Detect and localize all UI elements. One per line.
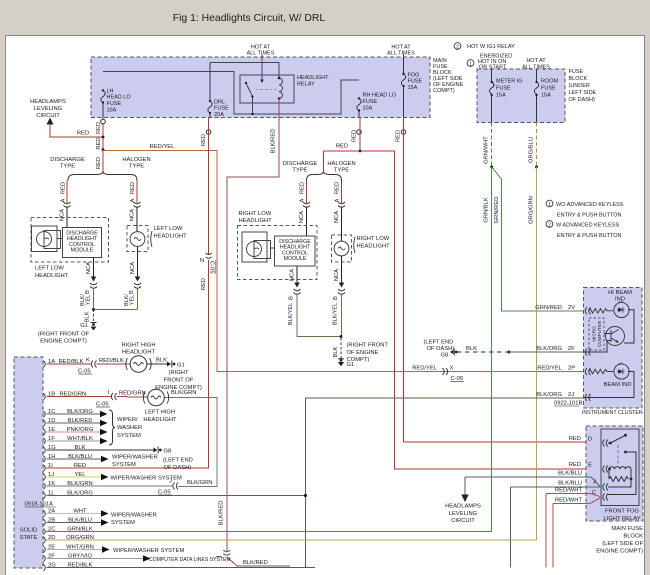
svg-text:RED: RED [336, 144, 348, 150]
svg-text:TYPE: TYPE [334, 168, 349, 174]
svg-text:RED/WHT: RED/WHT [555, 488, 583, 494]
svg-text:HEADLAMPS: HEADLAMPS [445, 504, 481, 510]
svg-text:GRN/BLK: GRN/BLK [484, 197, 490, 223]
svg-text:FUSE: FUSE [496, 86, 511, 92]
svg-text:BLK/ORG: BLK/ORG [536, 346, 562, 352]
svg-text:RED/GRN: RED/GRN [119, 391, 146, 397]
svg-text:BLK/GRN: BLK/GRN [171, 390, 196, 396]
svg-text:OF DASH): OF DASH) [164, 465, 192, 471]
svg-text:BLK/RED: BLK/RED [219, 501, 225, 526]
svg-text:RED: RED [130, 182, 136, 194]
svg-text:WASHER: WASHER [117, 425, 142, 431]
svg-text:1D: 1D [48, 418, 55, 424]
svg-text:RED: RED [77, 131, 89, 137]
svg-text:A: A [130, 198, 136, 202]
svg-text:MODULE: MODULE [71, 247, 94, 253]
svg-text:MODULE: MODULE [284, 256, 307, 262]
svg-text:DRL: DRL [214, 99, 225, 105]
svg-text:RH HEAD LO: RH HEAD LO [363, 93, 397, 99]
svg-text:C-05: C-05 [209, 261, 215, 274]
svg-text:RED: RED [96, 137, 102, 149]
svg-text:WO ADVANCED KEYLESS: WO ADVANCED KEYLESS [556, 202, 624, 208]
svg-text:GRN/BLK: GRN/BLK [67, 526, 93, 532]
svg-text:20A: 20A [214, 112, 224, 118]
svg-text:BLK/RED: BLK/RED [271, 129, 277, 154]
svg-text:BLK/BLU: BLK/BLU [558, 481, 582, 487]
svg-text:FUSE: FUSE [408, 79, 423, 85]
svg-text:C-05: C-05 [451, 376, 464, 382]
svg-text:NCA: NCA [130, 209, 136, 221]
svg-text:1C: 1C [48, 409, 55, 415]
svg-text:METER IG: METER IG [496, 79, 523, 85]
svg-text:15A: 15A [408, 85, 418, 91]
svg-text:NCA: NCA [290, 269, 296, 281]
svg-text:DISCHARGE: DISCHARGE [283, 161, 318, 167]
svg-text:RIGHT HIGH: RIGHT HIGH [121, 342, 155, 348]
svg-text:ENTRY & PUSH BUTTON: ENTRY & PUSH BUTTON [557, 233, 622, 239]
svg-text:A: A [335, 198, 341, 202]
svg-text:WHT: WHT [73, 508, 87, 514]
svg-text:BLK/RED: BLK/RED [68, 418, 93, 424]
svg-text:MICRO: MICRO [591, 326, 596, 342]
svg-text:RED: RED [300, 182, 306, 194]
svg-text:ENGINE COMPT): ENGINE COMPT) [596, 549, 643, 555]
svg-text:HEADLAMPS: HEADLAMPS [30, 99, 66, 105]
svg-text:RED/BLK: RED/BLK [68, 562, 93, 568]
svg-text:LEFT SIDE: LEFT SIDE [569, 90, 597, 96]
svg-text:B: B [129, 290, 135, 294]
svg-text:FRONT OF: FRONT OF [164, 378, 194, 384]
svg-text:WIPER/: WIPER/ [117, 417, 138, 423]
svg-text:TYPE: TYPE [60, 164, 75, 170]
svg-text:1I: 1I [48, 463, 53, 469]
svg-text:RED/BLK: RED/BLK [59, 359, 84, 365]
svg-text:BLOCK: BLOCK [569, 76, 588, 82]
svg-text:RED/WHT: RED/WHT [555, 498, 583, 504]
svg-text:B: B [85, 290, 91, 294]
svg-text:BLOCK: BLOCK [623, 534, 643, 540]
svg-text:RIGHT LOW: RIGHT LOW [357, 236, 390, 242]
svg-text:2F: 2F [568, 346, 575, 352]
svg-text:C-05: C-05 [96, 402, 109, 408]
svg-text:RED: RED [352, 130, 358, 142]
svg-text:FOG: FOG [408, 72, 420, 78]
svg-text:FUSE: FUSE [107, 101, 122, 107]
svg-text:RED/YEL: RED/YEL [537, 365, 563, 371]
svg-text:(UNDER: (UNDER [569, 83, 590, 89]
svg-text:2C: 2C [48, 526, 55, 532]
svg-text:DISCHARGE: DISCHARGE [50, 157, 85, 163]
svg-text:NCA: NCA [334, 211, 340, 223]
svg-text:ORG/GRN: ORG/GRN [529, 196, 535, 224]
svg-text:RED: RED [396, 130, 402, 142]
svg-text:COMPT): COMPT) [347, 357, 370, 363]
svg-text:HOT AT: HOT AT [526, 58, 546, 64]
svg-text:RED/BLK: RED/BLK [99, 358, 124, 364]
svg-text:ALL TIMES: ALL TIMES [522, 64, 550, 70]
svg-text:G8: G8 [441, 353, 449, 359]
svg-text:2: 2 [456, 44, 459, 50]
svg-text:BLK/ORG: BLK/ORG [67, 490, 93, 496]
svg-text:BLK: BLK [333, 346, 339, 357]
svg-text:CIRCUIT: CIRCUIT [36, 113, 60, 119]
svg-text:2P: 2P [568, 365, 575, 371]
svg-text:2F: 2F [48, 553, 55, 559]
svg-text:C-05: C-05 [158, 490, 171, 496]
svg-text:NCA: NCA [130, 262, 136, 274]
svg-text:RED/YEL: RED/YEL [150, 144, 176, 150]
svg-text:RED: RED [201, 278, 207, 290]
svg-text:LEVELING: LEVELING [34, 106, 63, 112]
svg-text:LEFT LOW: LEFT LOW [35, 266, 64, 272]
svg-text:E: E [588, 463, 592, 469]
svg-text:ROOM: ROOM [541, 79, 559, 85]
svg-text:0922-101B: 0922-101B [554, 401, 582, 407]
svg-text:STATE: STATE [20, 535, 38, 541]
svg-text:HEADLIGHT: HEADLIGHT [154, 234, 188, 240]
svg-text:HEADLIGHT: HEADLIGHT [297, 75, 329, 81]
svg-text:BLK: BLK [156, 358, 167, 364]
svg-text:J: J [169, 479, 172, 485]
svg-text:COMPUTER DATA LINES SYSTEM: COMPUTER DATA LINES SYSTEM [149, 557, 231, 563]
svg-text:YEL: YEL [86, 295, 92, 305]
svg-text:1: 1 [548, 202, 551, 208]
svg-text:15A: 15A [496, 93, 506, 99]
svg-text:G8: G8 [164, 449, 172, 455]
svg-text:A: A [300, 198, 306, 202]
svg-text:HEADLIGHT: HEADLIGHT [357, 244, 391, 250]
svg-text:C-05: C-05 [78, 369, 91, 375]
svg-text:SYSTEM: SYSTEM [117, 433, 141, 439]
svg-text:D: D [588, 437, 592, 443]
svg-text:HEADLIGHT: HEADLIGHT [122, 350, 156, 356]
svg-text:BLK/ORG: BLK/ORG [536, 392, 562, 398]
svg-text:BLK: BLK [75, 445, 86, 451]
svg-text:WHT/GRN: WHT/GRN [66, 544, 94, 550]
svg-text:RIGHT LOW: RIGHT LOW [239, 211, 272, 217]
svg-text:K: K [86, 358, 90, 364]
svg-text:(LEFT SIDE OF: (LEFT SIDE OF [602, 541, 643, 547]
svg-text:RED: RED [569, 436, 581, 442]
svg-text:2J: 2J [568, 392, 574, 398]
svg-text:ENGINE COMPT): ENGINE COMPT) [40, 339, 87, 345]
svg-text:1F: 1F [48, 436, 55, 442]
svg-text:1G: 1G [48, 445, 56, 451]
svg-text:WIPER/WASHER: WIPER/WASHER [111, 512, 157, 518]
svg-text:HOT W IG1 RELAY: HOT W IG1 RELAY [467, 44, 515, 50]
svg-text:1A: 1A [48, 359, 55, 365]
svg-text:WIPER/WASHER: WIPER/WASHER [112, 454, 158, 460]
svg-text:RED: RED [569, 462, 581, 468]
svg-text:RED: RED [201, 134, 207, 146]
svg-text:NCA: NCA [334, 269, 340, 281]
svg-text:ENTRY & PUSH BUTTON: ENTRY & PUSH BUTTON [557, 213, 622, 219]
svg-text:BLK/GRN: BLK/GRN [67, 481, 92, 487]
svg-text:GRN/RED: GRN/RED [535, 305, 562, 311]
svg-text:BLK: BLK [466, 346, 477, 352]
svg-text:HEADLIGHT: HEADLIGHT [239, 218, 273, 224]
svg-text:CIRCUIT: CIRCUIT [451, 518, 475, 524]
svg-text:10A: 10A [107, 107, 117, 113]
svg-text:BLK/RED: BLK/RED [243, 560, 268, 566]
svg-text:RED: RED [96, 122, 102, 134]
svg-text:OF DASH): OF DASH) [427, 346, 455, 352]
svg-text:SOLID: SOLID [20, 528, 37, 534]
svg-text:PNK/ORG: PNK/ORG [67, 427, 94, 433]
svg-text:1K: 1K [48, 481, 55, 487]
svg-text:FUSE: FUSE [214, 106, 229, 112]
svg-text:OF ENGINE: OF ENGINE [347, 350, 379, 356]
svg-text:LEFT HIGH: LEFT HIGH [145, 410, 175, 416]
svg-text:N: N [200, 258, 204, 264]
svg-text:1L: 1L [48, 490, 55, 496]
svg-text:RED: RED [61, 182, 67, 194]
svg-text:(RIGHT: (RIGHT [169, 370, 189, 376]
svg-text:2A: 2A [48, 508, 55, 514]
svg-text:(RIGHT FRONT: (RIGHT FRONT [347, 343, 389, 349]
svg-text:GRN/RED: GRN/RED [494, 197, 500, 224]
svg-text:G1: G1 [80, 323, 88, 329]
svg-text:WHT/BLK: WHT/BLK [67, 436, 93, 442]
svg-text:HI BEAM: HI BEAM [608, 290, 632, 296]
svg-text:1H: 1H [48, 454, 55, 460]
svg-text:2: 2 [548, 222, 551, 228]
svg-text:OF DASH): OF DASH) [569, 97, 595, 103]
svg-text:LEFT LOW: LEFT LOW [154, 226, 183, 232]
svg-text:LEVELING: LEVELING [449, 511, 478, 517]
svg-text:2V: 2V [568, 305, 575, 311]
svg-text:OR START: OR START [479, 64, 507, 70]
svg-text:W ADVANCED KEYLESS: W ADVANCED KEYLESS [556, 223, 619, 229]
svg-text:TYPE: TYPE [129, 164, 144, 170]
svg-text:FUSE: FUSE [569, 69, 584, 75]
svg-text:X: X [450, 366, 454, 372]
svg-text:LIGHT RELAY: LIGHT RELAY [603, 516, 640, 522]
svg-text:FUSE: FUSE [541, 86, 556, 92]
svg-text:2G: 2G [48, 562, 56, 568]
svg-text:2D: 2D [48, 535, 55, 541]
svg-text:1E: 1E [48, 427, 55, 433]
svg-text:RED: RED [335, 182, 341, 194]
svg-text:BLK/YEL: BLK/YEL [288, 303, 294, 325]
svg-text:RED/GRN: RED/GRN [60, 391, 87, 397]
svg-text:BLK: BLK [85, 311, 91, 322]
svg-text:BLK/BLU: BLK/BLU [68, 454, 92, 460]
svg-text:NCA: NCA [60, 209, 66, 221]
svg-text:HEAD LO: HEAD LO [107, 95, 132, 101]
svg-text:1: 1 [469, 61, 472, 67]
svg-text:BEAM IND: BEAM IND [603, 382, 631, 388]
svg-text:TYPE: TYPE [292, 168, 307, 174]
svg-text:RED: RED [96, 157, 102, 169]
svg-text:RED/YEL: RED/YEL [412, 365, 438, 371]
svg-text:G1: G1 [177, 363, 185, 369]
svg-text:ALL TIMES: ALL TIMES [247, 51, 275, 57]
svg-text:1J: 1J [48, 472, 54, 478]
svg-text:2E: 2E [48, 544, 55, 550]
svg-text:YEL: YEL [130, 295, 136, 305]
svg-text:0918-101A: 0918-101A [25, 502, 53, 508]
svg-text:ORG/GRN: ORG/GRN [66, 535, 94, 541]
svg-text:B: B [289, 296, 295, 300]
svg-text:FRONT FOG: FRONT FOG [605, 509, 640, 515]
svg-text:BLK/YEL: BLK/YEL [333, 303, 339, 325]
svg-text:LH: LH [107, 89, 114, 95]
svg-text:WIPER/WASHER SYSTEM: WIPER/WASHER SYSTEM [113, 548, 184, 554]
svg-text:SYSTEM: SYSTEM [112, 462, 136, 468]
svg-text:(RIGHT FRONT OF: (RIGHT FRONT OF [38, 332, 89, 338]
svg-text:YEL: YEL [75, 472, 87, 478]
svg-text:10A: 10A [363, 106, 373, 112]
svg-text:INSTRUMENT CLUSTER: INSTRUMENT CLUSTER [582, 410, 643, 416]
svg-text:NCA: NCA [299, 211, 305, 223]
svg-text:HALOGEN: HALOGEN [327, 161, 355, 167]
svg-text:1B: 1B [48, 391, 55, 397]
svg-text:(LEFT END: (LEFT END [163, 458, 193, 464]
svg-text:NCA: NCA [86, 262, 92, 274]
svg-text:FUSE: FUSE [363, 99, 378, 105]
svg-text:BLK/ORG: BLK/ORG [67, 409, 93, 415]
svg-text:HALOGEN: HALOGEN [122, 157, 150, 163]
svg-text:RELAY: RELAY [297, 82, 315, 88]
svg-text:(LEFT END: (LEFT END [424, 340, 454, 346]
svg-text:GRN/WHT: GRN/WHT [484, 136, 490, 164]
svg-text:HEADLIGHT: HEADLIGHT [35, 273, 69, 279]
svg-text:SYSTEM: SYSTEM [111, 520, 135, 526]
svg-text:BLK/BLU: BLK/BLU [68, 517, 92, 523]
svg-text:Fig 1: Headlights Circuit, W/: Fig 1: Headlights Circuit, W/ DRL [173, 13, 326, 24]
svg-text:BLK/BLU: BLK/BLU [558, 471, 582, 477]
svg-text:MAIN FUSE: MAIN FUSE [611, 526, 643, 532]
svg-text:COMPT): COMPT) [433, 88, 455, 94]
svg-text:15A: 15A [541, 93, 551, 99]
svg-text:IND: IND [615, 297, 625, 303]
svg-text:COMPUTER: COMPUTER [597, 320, 602, 347]
svg-text:HEADLIGHT: HEADLIGHT [143, 417, 177, 423]
svg-text:A: A [61, 198, 67, 202]
svg-text:BLK/GRN: BLK/GRN [187, 480, 212, 486]
svg-text:ALL TIMES: ALL TIMES [387, 51, 415, 57]
svg-text:B: B [333, 296, 339, 300]
svg-text:ORG/BLU: ORG/BLU [529, 137, 535, 163]
svg-text:2B: 2B [48, 517, 55, 523]
svg-text:GRY/VIO: GRY/VIO [68, 553, 93, 559]
svg-text:RED: RED [74, 463, 86, 469]
